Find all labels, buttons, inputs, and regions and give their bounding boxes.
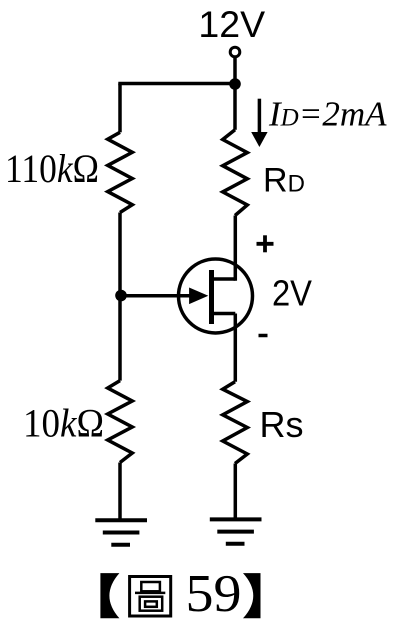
svg-text:10kΩ: 10kΩ [23, 401, 104, 446]
wire source to Rs [234, 314, 238, 382]
svg-text:12V: 12V [198, 3, 265, 45]
wire left branch middle [118, 213, 122, 296]
caption right lenticular bracket [243, 573, 261, 618]
wire left branch upper lead [118, 84, 122, 133]
resistor R2 10k zigzag [108, 381, 133, 463]
wire left branch lower [118, 296, 122, 381]
wire top horizontal [118, 82, 235, 86]
node top junction dot [229, 78, 241, 90]
wire node to RD [233, 84, 237, 130]
caption character tu (figure) drawn [130, 577, 171, 617]
label plus [257, 235, 274, 252]
label minus [259, 334, 268, 338]
current arrow ID [258, 99, 262, 133]
wire supply to top node [233, 57, 237, 84]
wire Rs to ground [234, 464, 238, 520]
caption left lenticular bracket [100, 573, 119, 618]
transistor Q1 gate arrowhead [189, 288, 208, 305]
ground left [95, 520, 147, 544]
svg-text:Rs: Rs [260, 404, 304, 445]
svg-text:110kΩ: 110kΩ [5, 146, 99, 191]
transistor Q1 gate bar [209, 270, 214, 324]
node gate junction dot [115, 290, 127, 302]
ground right [210, 519, 262, 543]
wire RD to drain [234, 216, 238, 281]
supply terminal open circle [230, 47, 240, 57]
transistor Q1 drain lead [212, 277, 236, 281]
resistor R1 110k zigzag [108, 132, 133, 212]
wire to left ground [118, 463, 122, 520]
transistor Q1 source lead [212, 312, 236, 316]
wire gate from junction [121, 294, 192, 298]
svg-text:59: 59 [186, 565, 242, 623]
transistor Q1 body circle [179, 259, 253, 333]
resistor RD zigzag [223, 130, 248, 216]
resistor Rs zigzag [223, 382, 248, 464]
svg-text:2V: 2V [272, 273, 312, 314]
